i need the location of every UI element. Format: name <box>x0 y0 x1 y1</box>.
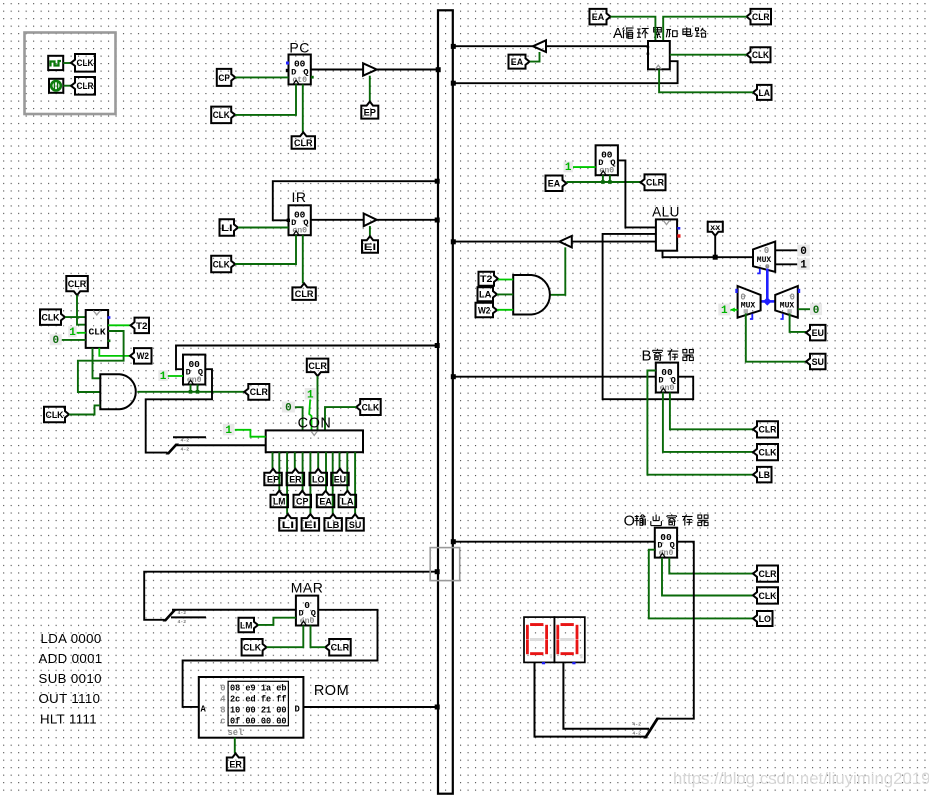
svg-text:CLK: CLK <box>46 410 64 421</box>
svg-text:CLR: CLR <box>295 289 314 300</box>
wire ROM D to bus <box>303 706 437 708</box>
wire LM to MAR en <box>258 618 296 625</box>
svg-text:MUX: MUX <box>780 301 795 310</box>
svg-text:LM: LM <box>273 496 285 507</box>
svg-text:en0: en0 <box>599 167 614 176</box>
svg-text:B: B <box>642 348 652 365</box>
wire CLR to divider <box>77 295 86 325</box>
svg-text:SU: SU <box>349 520 362 531</box>
svg-text:CLK: CLK <box>759 448 777 459</box>
wire T2 to gate <box>498 279 513 281</box>
logic label 0 (CON) <box>282 402 295 415</box>
junction bus-step <box>435 343 440 348</box>
terminal LB (B reg) <box>753 467 772 483</box>
rom contents <box>201 683 300 738</box>
terminal EA (buffer enable) <box>509 55 530 69</box>
wire B reg en to CLR <box>670 393 753 430</box>
wire MAR Q to ROM A <box>183 610 378 707</box>
wire CLK to MAR clock <box>267 626 304 648</box>
tag xx <box>708 222 723 236</box>
svg-text:MAR: MAR <box>291 580 324 596</box>
wire MUX1 out0 <box>775 249 797 251</box>
wire buffer to bus <box>377 69 438 71</box>
svg-text:1: 1 <box>800 260 807 272</box>
label O output register title <box>624 514 708 530</box>
terminal CLK (divider) <box>40 309 65 325</box>
wire 1 to CON top <box>309 400 311 431</box>
svg-text:https://blog.csdn.net/liuyimin: https://blog.csdn.net/liuyiming2019 <box>673 769 929 788</box>
junction bus-IR-Q <box>435 218 440 223</box>
logic label 0 (MUX1) <box>797 245 810 258</box>
terminal LM (CON) <box>271 491 289 508</box>
wire bus stub (CON) <box>173 436 206 438</box>
terminal LM <box>239 618 259 633</box>
terminal EI (CON) <box>302 514 320 531</box>
wire to CON <box>176 444 266 446</box>
logic label 1 (MUX1) <box>797 258 810 271</box>
wire CLR to CON <box>317 376 319 430</box>
svg-text:CLK: CLK <box>88 327 105 338</box>
terminal EA (CON) <box>317 491 335 508</box>
wire ROM sel to ER <box>234 738 236 754</box>
terminal CLR (step reg) <box>244 384 269 400</box>
wire AND out to CLR <box>137 391 244 393</box>
logic label 0 (MUX3) <box>810 303 822 317</box>
wire bus to ALU buffer <box>454 241 560 243</box>
wire IR Q to buffer <box>311 219 364 221</box>
svg-text:EI: EI <box>304 520 316 531</box>
svg-text:LA: LA <box>341 496 354 507</box>
label B register title <box>642 348 694 365</box>
junction A reg en <box>608 180 612 184</box>
svg-text:CLR: CLR <box>331 643 350 654</box>
terminal LA (A-circuit) <box>753 85 772 100</box>
terminal EU <box>806 325 826 341</box>
terminal CLR (A reg) <box>641 174 666 190</box>
junction A reg clock <box>601 180 605 184</box>
svg-text:xx: xx <box>710 223 720 233</box>
wire EP enable <box>369 76 371 102</box>
wire CON out 11 <box>346 452 348 491</box>
svg-text:ER: ER <box>289 474 302 485</box>
wire ALU to buffer <box>572 241 656 243</box>
wire CON out 5 <box>302 452 304 491</box>
terminal EA (top) <box>590 9 611 25</box>
svg-text:CLK: CLK <box>213 110 230 121</box>
svg-text:W2: W2 <box>137 351 149 362</box>
wire AND to buffer enable <box>551 247 566 294</box>
svg-text:MUX: MUX <box>741 301 756 310</box>
wire IR en to CLR <box>302 235 304 283</box>
svg-text:0f 00 00 00: 0f 00 00 00 <box>230 716 287 726</box>
junction bus-ROM <box>435 705 440 710</box>
svg-text:ROM: ROM <box>314 683 349 699</box>
junction bus-Abox-loop <box>451 81 456 86</box>
wire CON out 10 <box>339 452 341 469</box>
wire 0 to divider <box>62 339 86 341</box>
wire CON out 6 <box>309 452 311 514</box>
and gate U-EN (T2 LA W2) <box>513 275 550 315</box>
wire bus to EA buffer <box>454 45 533 47</box>
terminal CLK (MAR) <box>242 639 267 656</box>
terminal ER (CON) <box>287 469 305 486</box>
svg-text:A: A <box>613 26 623 42</box>
svg-text:CLK: CLK <box>42 313 60 324</box>
svg-text:4-2: 4-2 <box>632 721 641 727</box>
junction bus-Abox-in <box>451 44 456 49</box>
terminal CLK (O reg) <box>753 587 778 603</box>
terminal SU (CON) <box>346 514 364 531</box>
svg-text:CLR: CLR <box>294 138 313 149</box>
wire CLK to PC clock <box>235 84 296 115</box>
wire B reg Q loop to ALU <box>603 234 694 399</box>
svg-text:ct0: ct0 <box>292 76 307 85</box>
svg-text:4-2: 4-2 <box>178 619 187 625</box>
wire CLR to A-box <box>663 17 746 41</box>
terminal CLK (AND) <box>44 407 69 423</box>
terminal LA (gate) <box>478 287 498 301</box>
svg-text:4: 4 <box>220 694 226 704</box>
svg-text:10 00 21 00: 10 00 21 00 <box>230 705 287 715</box>
svg-text:EU: EU <box>812 328 825 339</box>
svg-text:OUT 1110: OUT 1110 <box>39 691 101 706</box>
mux U-M1 (top) <box>753 242 775 274</box>
register STEP <box>183 355 205 385</box>
svg-text:en0: en0 <box>659 549 674 558</box>
svg-text:IR: IR <box>292 189 307 205</box>
terminal CLK (IR) <box>211 256 235 272</box>
svg-text:SU: SU <box>812 357 825 368</box>
svg-text:W2: W2 <box>478 305 490 316</box>
svg-text:CLK: CLK <box>759 591 777 602</box>
terminal CLR (divider) <box>66 276 88 295</box>
terminal W2 (divider) <box>130 348 152 364</box>
bus entry wedge (CON) <box>166 444 180 455</box>
wire B reg clock to CLK <box>663 393 753 452</box>
svg-text:ADD 0001: ADD 0001 <box>39 651 103 666</box>
wire CLK to AND in3 <box>69 405 100 414</box>
logic-0 constant symbol <box>49 79 63 93</box>
wire 1 to MUX2 <box>731 309 738 311</box>
svg-text:8: 8 <box>220 705 225 715</box>
wire CON out 4 <box>294 452 296 469</box>
svg-text:1: 1 <box>307 389 314 401</box>
wire LI to IR en <box>238 227 289 229</box>
terminal LI <box>220 219 239 236</box>
wire divider to AND in2 <box>78 331 124 392</box>
wire A-box to LA <box>659 69 753 92</box>
svg-text:EA: EA <box>319 496 332 507</box>
wire EI enable <box>369 226 371 236</box>
svg-text:EA: EA <box>592 12 605 23</box>
buffer EI (IR output) <box>364 214 377 227</box>
clock generator symbol <box>48 56 63 70</box>
mux U-M2 (lower left) <box>735 286 760 319</box>
wire bus to step reg D <box>176 346 438 370</box>
rom box U-ROM <box>199 677 304 738</box>
logic label 1 (divider) <box>68 326 77 339</box>
svg-text:CLR: CLR <box>646 178 664 189</box>
wire EA to A-box <box>611 17 656 41</box>
svg-text:CLK: CLK <box>213 259 230 270</box>
terminal LI (CON) <box>279 514 297 531</box>
terminal EI <box>362 236 378 253</box>
junction bus-ALU <box>451 239 456 244</box>
wire buffer EI to bus <box>377 219 438 221</box>
terminal CLR source <box>71 77 95 95</box>
terminal CP <box>217 69 236 86</box>
wire A reg clock stub <box>602 175 604 182</box>
logic label 0 (divider) <box>50 334 62 347</box>
wire MUX1 out1 <box>775 263 797 265</box>
7-segment display DS1 <box>524 617 554 664</box>
logic label 1 (CON top) <box>305 388 316 401</box>
label A accumulator circuit title <box>613 26 706 42</box>
selection box <box>430 548 460 581</box>
wire A-box loop to bus <box>454 61 678 83</box>
svg-text:4-2: 4-2 <box>178 610 187 616</box>
terminal CLR (A-circuit) <box>747 9 772 25</box>
pin en PC right mark <box>311 76 314 79</box>
terminal CLK (CON) <box>356 399 381 415</box>
wire O reg to LO <box>649 550 753 619</box>
svg-text:1: 1 <box>565 162 572 174</box>
svg-text:LA: LA <box>758 88 770 99</box>
wire O reg en to CLR <box>669 558 753 574</box>
svg-text:CLR: CLR <box>77 81 94 92</box>
7-segment display DS2 <box>554 617 584 664</box>
wire <box>63 62 71 64</box>
svg-text:T2: T2 <box>136 321 148 332</box>
svg-text:LO: LO <box>759 614 771 625</box>
logic label 1 (step reg) <box>158 370 168 383</box>
terminal CLR (CON) <box>307 359 329 377</box>
svg-text:c: c <box>220 716 225 726</box>
svg-text:1: 1 <box>721 305 728 317</box>
wire PC en to CLR <box>302 84 304 132</box>
junction bus-O <box>451 539 456 544</box>
svg-text:CLR: CLR <box>759 425 777 436</box>
wire bus stub (MAR) <box>171 616 206 618</box>
svg-text:4-2: 4-2 <box>181 447 190 453</box>
wire bus to O reg D <box>454 541 655 543</box>
junction step en <box>196 390 200 394</box>
wire EA enable <box>530 52 540 62</box>
svg-text:0: 0 <box>52 335 59 347</box>
terminal CLK (B reg) <box>753 444 778 460</box>
terminal CLR (O reg) <box>753 566 778 582</box>
wire EA buffer to A-box <box>546 45 648 47</box>
frame clock-source group box <box>25 33 116 115</box>
svg-text:SUB 0010: SUB 0010 <box>39 671 102 686</box>
svg-text:LO: LO <box>312 474 324 485</box>
svg-text:1: 1 <box>225 425 232 437</box>
terminal W2 (gate) <box>476 303 498 318</box>
wire CON out 9 <box>332 452 334 514</box>
svg-text:1: 1 <box>160 371 167 383</box>
wire ALU out to MUX <box>663 251 754 258</box>
wire <box>63 85 71 87</box>
wire CLK to divider <box>65 316 86 318</box>
wire 7seg left pin <box>535 663 646 737</box>
terminal CLR (PC) <box>292 132 315 149</box>
svg-text:PC: PC <box>289 40 309 56</box>
svg-text:LB: LB <box>327 520 340 531</box>
wire CP to PC <box>235 76 288 78</box>
svg-text:EP: EP <box>364 108 377 119</box>
terminal LO (CON) <box>310 469 328 486</box>
svg-text:CLK: CLK <box>362 402 380 413</box>
svg-text:ALU: ALU <box>652 205 680 220</box>
wire W2 to gate <box>497 309 513 311</box>
svg-text:EP: EP <box>267 474 280 485</box>
wire A reg en stub <box>609 175 611 182</box>
wire A-box to CLK <box>670 54 747 56</box>
wire O reg clock to CLK <box>662 558 753 596</box>
wire EA to CLR (A reg) <box>567 181 641 183</box>
wire step reg Q down <box>146 369 212 452</box>
svg-text:CLK: CLK <box>752 50 769 61</box>
wire CLK to CON <box>325 407 356 430</box>
terminal SU <box>806 354 826 370</box>
wire step en stub <box>197 385 199 392</box>
terminal T2 (gate) <box>479 272 499 286</box>
wire to MAR D <box>172 609 296 611</box>
svg-text:sel: sel <box>228 728 244 738</box>
svg-text:CLR: CLR <box>308 361 327 372</box>
register A <box>596 145 618 175</box>
mux U-M3 (lower right) <box>775 286 800 319</box>
svg-text:CLK: CLK <box>77 58 94 69</box>
svg-text:ER: ER <box>229 759 242 770</box>
wire bus to MAR entry <box>144 572 437 620</box>
wire divider to W2 <box>99 348 130 356</box>
wire B reg to LB <box>647 371 753 475</box>
svg-text:T2: T2 <box>480 274 492 285</box>
buffer EP (PC output) <box>363 63 377 75</box>
svg-text:CLR: CLR <box>752 12 770 23</box>
register MAR <box>296 596 318 626</box>
terminal EP (CON) <box>264 469 282 486</box>
terminal LB (CON) <box>324 514 342 531</box>
wire LA to gate <box>497 293 513 295</box>
wire PC Q to buffer <box>311 69 363 71</box>
svg-text:LDA 0000: LDA 0000 <box>41 631 102 646</box>
logic label 1 (A reg) <box>564 162 574 175</box>
wire O reg Q down <box>658 542 694 719</box>
wire xx to node <box>714 236 716 258</box>
register PC <box>289 55 311 85</box>
wire bus to B reg D <box>454 376 656 378</box>
svg-text:0: 0 <box>813 305 820 317</box>
wire CON out 12 <box>354 452 356 514</box>
svg-text:CP: CP <box>296 496 309 507</box>
alu box U-ALU <box>656 219 681 250</box>
svg-text:4-2: 4-2 <box>181 437 190 443</box>
wire MUX3 out <box>798 308 810 310</box>
terminal ER <box>227 754 245 771</box>
adder/accumulator box <box>647 41 670 69</box>
register B <box>656 363 678 393</box>
pin blue mark PC <box>286 62 289 65</box>
junction xx <box>713 255 718 260</box>
wire CON out 8 <box>325 452 327 491</box>
svg-text:0: 0 <box>220 683 225 693</box>
wire CON out 7 <box>317 452 319 469</box>
svg-text:EI: EI <box>364 242 376 253</box>
divider box U-CLK <box>86 310 111 348</box>
wire 1 to divider <box>77 332 86 334</box>
svg-text:2c ed fe ff: 2c ed fe ff <box>230 694 287 704</box>
terminal LA (CON) <box>339 491 357 508</box>
bus entry wedge (7seg) <box>643 718 660 739</box>
terminal CP (CON) <box>294 491 312 508</box>
pin D IR <box>287 219 290 222</box>
svg-text:4-2: 4-2 <box>632 730 641 736</box>
wire A reg Q to ALU <box>618 160 656 227</box>
logic label 1 (MUX2) <box>718 304 730 318</box>
svg-text:0: 0 <box>285 402 292 414</box>
svg-text:LI: LI <box>221 223 233 234</box>
svg-text:EU: EU <box>334 474 347 485</box>
svg-text:MUX: MUX <box>757 256 772 265</box>
terminal CLR (IR) <box>292 283 315 300</box>
svg-text:CON: CON <box>298 416 332 432</box>
wire CLK to IR clock <box>235 235 296 264</box>
svg-text:HLT 1111: HLT 1111 <box>40 712 97 727</box>
svg-text:08 e9 1a eb: 08 e9 1a eb <box>230 683 287 693</box>
bus entry wedge (MAR) <box>163 611 177 622</box>
svg-text:LM: LM <box>240 620 252 631</box>
terminal EU (CON) <box>331 469 349 486</box>
wire MUX2 to SU <box>746 313 806 361</box>
wire 1 to A reg <box>573 166 596 168</box>
svg-text:D: D <box>295 704 300 714</box>
junction bus-PC <box>436 67 441 72</box>
terminal CLR (MAR) <box>325 639 351 656</box>
wire CON out 2 <box>278 452 280 491</box>
register O <box>655 528 677 558</box>
wire 1 to step reg <box>168 375 183 377</box>
junction bus-IR-D <box>435 179 440 184</box>
svg-text:LA: LA <box>479 290 492 301</box>
svg-text:O: O <box>624 514 635 530</box>
buffer EA (bus to A) <box>533 40 546 52</box>
svg-text:en0: en0 <box>300 617 315 626</box>
svg-text:LB: LB <box>758 470 770 481</box>
svg-text:LI: LI <box>282 520 294 531</box>
bus W-BUS <box>438 10 453 793</box>
junction bus-MAR <box>435 569 440 574</box>
terminal EA (A reg) <box>546 176 567 192</box>
and gate U-STEP <box>100 374 135 409</box>
svg-text:CLR: CLR <box>759 569 777 580</box>
svg-text:en0: en0 <box>292 227 307 236</box>
svg-text:CLK: CLK <box>243 643 261 654</box>
terminal CLR (B reg) <box>753 421 778 437</box>
terminal EP <box>361 102 378 119</box>
controller box U-CON <box>266 430 363 452</box>
wire 0 to CON <box>295 407 303 430</box>
svg-text:A: A <box>201 704 207 714</box>
wire step clock stub <box>190 385 192 392</box>
svg-text:CP: CP <box>218 73 230 84</box>
register IR <box>289 205 311 235</box>
wire bus to IR D <box>273 181 438 220</box>
terminal LO (O reg) <box>753 611 773 626</box>
pin D PC unconnected <box>286 69 289 72</box>
wire CON out 3 <box>286 452 288 514</box>
